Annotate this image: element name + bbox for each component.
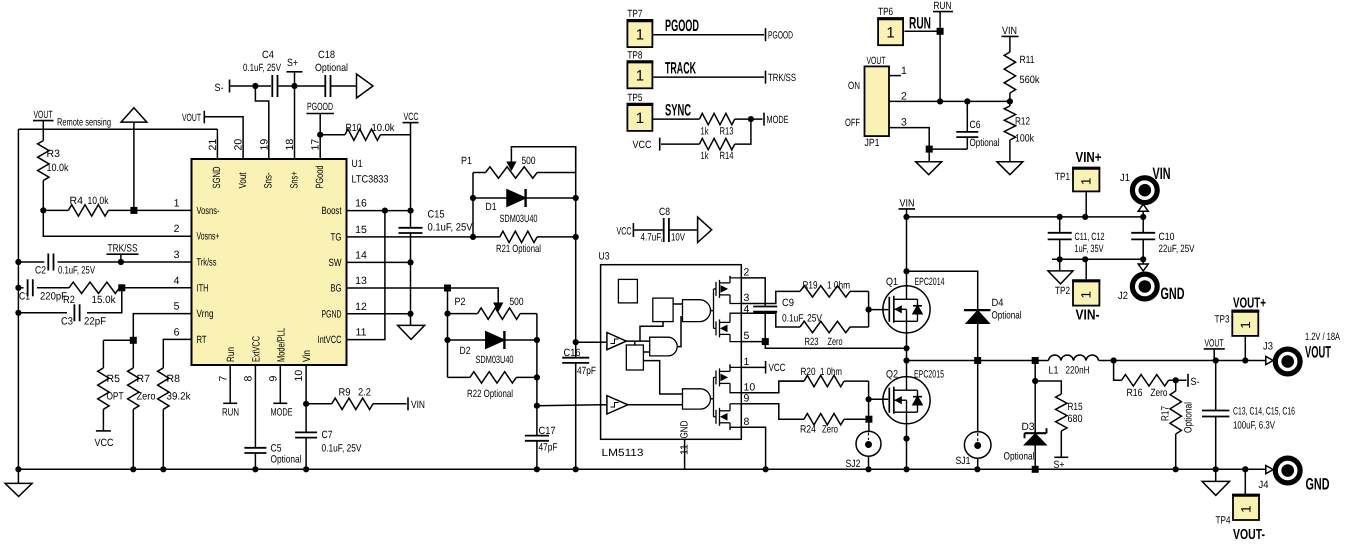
svg-text:VCC: VCC xyxy=(769,362,786,374)
node RUN junction square xyxy=(937,28,944,35)
capacitor C11 C12 xyxy=(1048,217,1105,259)
U3 pin 10 LO route xyxy=(741,381,804,393)
svg-text:1: 1 xyxy=(886,24,894,41)
svg-text:500: 500 xyxy=(522,155,536,167)
node C11 bottom junction xyxy=(1057,256,1063,262)
U3 pin 2 HB route xyxy=(741,267,765,308)
ground bottom-left xyxy=(5,469,32,496)
node Q1 source junction xyxy=(903,345,909,351)
node C3 rail junction xyxy=(15,310,21,316)
svg-text:R10: R10 xyxy=(346,122,362,134)
svg-text:VOUT: VOUT xyxy=(182,112,201,124)
svg-text:SJ2: SJ2 xyxy=(846,458,861,470)
node ground junction U3 VSS xyxy=(763,466,769,472)
svg-text:OFF: OFF xyxy=(845,117,860,129)
svg-text:11: 11 xyxy=(678,444,690,455)
svg-text:SW: SW xyxy=(329,257,342,269)
node Vosns- junction square xyxy=(130,207,137,214)
sense antenna triangle xyxy=(121,108,147,211)
jumper JP1 body xyxy=(845,55,889,149)
wire P1 right lead xyxy=(547,172,576,174)
node R15 branch junction xyxy=(1032,378,1038,384)
net flag S+ at R15 xyxy=(1054,457,1069,471)
svg-text:Boost: Boost xyxy=(322,205,342,217)
svg-text:1k: 1k xyxy=(701,126,710,138)
svg-text:D3: D3 xyxy=(1022,421,1035,433)
node R22 right junction xyxy=(534,374,540,380)
svg-text:SDM03U40: SDM03U40 xyxy=(500,213,538,225)
text VIN+ label xyxy=(1076,150,1102,166)
svg-text:GND: GND xyxy=(678,420,690,438)
net flag MODE at R13 xyxy=(764,113,789,126)
node P2 left junction xyxy=(444,311,450,317)
net flag VCC boost rail xyxy=(403,111,419,211)
svg-text:P1: P1 xyxy=(461,155,472,167)
JP1 pin 3 xyxy=(889,117,967,150)
U3 HI schmitt buffer xyxy=(607,333,626,350)
wire D1 network right rail xyxy=(575,147,577,343)
wire IntVCC rail xyxy=(347,211,385,340)
resistor R13 xyxy=(699,113,762,137)
solder jumper SJ2 xyxy=(846,419,882,470)
svg-text:3: 3 xyxy=(174,249,180,261)
text PGOOD big xyxy=(665,17,699,35)
svg-text:VCC: VCC xyxy=(95,437,114,449)
svg-text:1: 1 xyxy=(901,65,907,77)
diode D4 xyxy=(964,297,1022,361)
svg-text:22pF: 22pF xyxy=(84,316,106,328)
svg-text:S-: S- xyxy=(215,82,224,94)
node D3 top square xyxy=(1032,357,1039,364)
wire pin4 row xyxy=(18,287,121,289)
wire pin5 Vrng route xyxy=(133,314,191,341)
svg-text:Vosns-: Vosns- xyxy=(197,205,220,217)
net flag VCC at U3 xyxy=(766,361,786,374)
svg-text:C18: C18 xyxy=(318,49,335,61)
capacitor C9 xyxy=(753,297,822,342)
capacitor C7 xyxy=(295,404,361,470)
svg-text:R8: R8 xyxy=(167,373,181,385)
node C11 top junction xyxy=(1057,214,1063,220)
svg-text:1uF, 35V: 1uF, 35V xyxy=(1075,243,1104,255)
node D2 left junction xyxy=(444,337,450,343)
U3 pin 1 VDD xyxy=(741,356,765,368)
wire PGND row xyxy=(347,313,411,315)
svg-text:TRACK: TRACK xyxy=(665,60,696,78)
node TP3 junction xyxy=(1242,357,1248,363)
node Cout top junction xyxy=(1213,357,1219,363)
svg-text:Vout: Vout xyxy=(237,172,249,188)
capacitor C17 xyxy=(525,406,558,470)
U3 AND gate low side xyxy=(683,389,711,409)
net flag VCC at R5 xyxy=(95,431,114,449)
node Q2 source junction xyxy=(903,436,909,442)
resistor R21 xyxy=(473,231,576,255)
wire SW row xyxy=(347,261,411,263)
capacitor C10 xyxy=(1131,217,1194,259)
svg-text:R2: R2 xyxy=(63,294,75,306)
svg-text:R4: R4 xyxy=(70,195,84,207)
svg-text:D2: D2 xyxy=(460,345,471,357)
testpoint TP2 xyxy=(1055,259,1100,305)
svg-text:TP2: TP2 xyxy=(1055,285,1070,297)
node C1 rail junction xyxy=(15,285,21,291)
net flag TRK/SS at TP8 xyxy=(766,71,797,84)
svg-text:VOUT: VOUT xyxy=(867,55,886,67)
svg-text:J3: J3 xyxy=(1263,341,1273,353)
wire Q2 gate lead xyxy=(869,398,889,400)
svg-text:EPC2014: EPC2014 xyxy=(915,276,945,288)
node ground junction Q2 xyxy=(903,466,909,472)
svg-text:TP5: TP5 xyxy=(627,92,642,104)
node ground junction SJ1 xyxy=(974,466,980,472)
wire RUN to JP1 row xyxy=(939,31,941,101)
resistor R7 xyxy=(128,340,156,469)
svg-text:PGOOD: PGOOD xyxy=(768,30,793,42)
svg-text:PGOOD: PGOOD xyxy=(665,17,699,35)
svg-text:9: 9 xyxy=(267,376,279,382)
svg-text:0.1uF, 25V: 0.1uF, 25V xyxy=(58,265,95,277)
svg-text:R19: R19 xyxy=(803,280,818,292)
svg-text:D4: D4 xyxy=(992,297,1004,309)
wire LI input row xyxy=(537,404,601,407)
net flag S- xyxy=(215,80,272,95)
svg-text:VOUT: VOUT xyxy=(1205,338,1224,350)
svg-text:VIN: VIN xyxy=(1153,165,1171,183)
net flag S+ xyxy=(287,57,303,86)
wire D3 rail xyxy=(1034,361,1036,434)
resistor R19 xyxy=(800,280,869,298)
wire pin6 RT route xyxy=(163,339,191,368)
svg-text:LTC3833: LTC3833 xyxy=(352,174,389,186)
node TP2 junction xyxy=(1082,256,1088,262)
node C6 junction xyxy=(964,98,970,104)
wire BG row xyxy=(347,287,448,289)
U3 LI schmitt buffer xyxy=(607,396,628,414)
solder jumper SJ1 xyxy=(956,361,992,470)
wire C18 to plane symbol xyxy=(331,85,357,87)
wire C8 to plane xyxy=(669,229,698,231)
node switch junction xyxy=(903,357,909,363)
wire Vin pin stub xyxy=(305,365,307,404)
potentiometer P2 xyxy=(448,296,537,319)
U3 pin 9 LOL route xyxy=(741,393,804,420)
svg-text:1 0hm: 1 0hm xyxy=(820,366,842,378)
svg-text:22uF, 25V: 22uF, 25V xyxy=(1159,243,1195,255)
U3 low-side driver FETs xyxy=(714,364,742,429)
testpoint TP3 xyxy=(1215,311,1260,360)
svg-text:TP8: TP8 xyxy=(627,49,642,61)
node ground junction SJ2 xyxy=(865,466,871,472)
U3 UVLO block xyxy=(618,279,637,303)
svg-text:R12: R12 xyxy=(1015,116,1030,128)
svg-text:2: 2 xyxy=(901,91,907,103)
svg-text:R24: R24 xyxy=(800,424,816,436)
net flag VIN rail xyxy=(899,198,916,286)
wire HI input row xyxy=(576,341,601,343)
capacitor C3 xyxy=(61,304,106,327)
wire ITH to pin xyxy=(122,287,192,289)
node ground junction Cout xyxy=(1213,466,1219,472)
wire pin3 row xyxy=(18,261,191,263)
ground below PGND xyxy=(398,325,425,339)
svg-text:PGood: PGood xyxy=(314,165,326,188)
wire Vosns+ route xyxy=(43,210,191,236)
svg-text:RUN: RUN xyxy=(909,15,931,33)
text VOUT- label xyxy=(1233,527,1265,543)
svg-text:Sns-: Sns- xyxy=(263,172,275,188)
svg-text:ON: ON xyxy=(848,80,860,92)
resistor R24 xyxy=(779,414,869,436)
svg-text:0.1uF, 25V: 0.1uF, 25V xyxy=(243,62,281,74)
svg-text:R3: R3 xyxy=(47,148,61,160)
svg-text:1: 1 xyxy=(1239,505,1254,513)
wire TG row xyxy=(347,236,474,238)
wire VIN to input caps xyxy=(907,216,1144,218)
svg-text:1: 1 xyxy=(636,110,644,127)
svg-text:R23: R23 xyxy=(805,336,819,348)
svg-text:Zero: Zero xyxy=(828,336,843,348)
svg-text:C9: C9 xyxy=(782,297,794,309)
wire gnd to J4 xyxy=(1245,468,1266,470)
resistor R11 xyxy=(1004,52,1040,101)
svg-text:4.7uF,: 4.7uF, xyxy=(641,232,663,244)
gate-driver U3 LM5113 body xyxy=(599,251,742,460)
capacitor C18 xyxy=(315,49,348,97)
node J1 junction xyxy=(1140,214,1146,220)
U3 pin 8 VSS route xyxy=(741,416,765,469)
svg-text:C17: C17 xyxy=(539,425,556,437)
svg-text:10.0k: 10.0k xyxy=(47,162,70,174)
svg-text:R11: R11 xyxy=(1020,54,1035,66)
node TP1 junction xyxy=(1082,214,1088,220)
node R3-R4 junction xyxy=(40,207,46,213)
wire Q1 gate rail xyxy=(868,291,870,327)
svg-text:EPC2015: EPC2015 xyxy=(914,369,944,381)
wire Q2 source xyxy=(906,424,908,470)
svg-text:47pF: 47pF xyxy=(577,365,596,377)
wire C3 branch xyxy=(18,288,121,313)
svg-text:1.2V / 18A: 1.2V / 18A xyxy=(1305,331,1340,343)
svg-text:VCC: VCC xyxy=(617,226,632,238)
svg-text:10.0k: 10.0k xyxy=(372,122,396,134)
svg-text:U3: U3 xyxy=(599,251,610,263)
svg-text:500: 500 xyxy=(510,296,524,308)
U3 AND gate mid xyxy=(650,337,678,356)
wire P2 left rail xyxy=(447,288,449,377)
svg-text:Vrng: Vrng xyxy=(197,308,214,320)
svg-text:C13, C14, C15, C16: C13, C14, C15, C16 xyxy=(1233,406,1295,418)
svg-text:7: 7 xyxy=(217,376,229,382)
U1 top pin labels 21-17 xyxy=(207,139,326,189)
svg-text:15.0k: 15.0k xyxy=(92,294,117,306)
wire Q1 source to switch xyxy=(906,333,908,361)
svg-text:C15: C15 xyxy=(428,209,445,221)
svg-text:Run: Run xyxy=(225,347,237,362)
svg-text:4: 4 xyxy=(744,303,750,315)
node R21 right junction xyxy=(573,234,579,240)
node ground junction C16 xyxy=(573,466,579,472)
wire top-left VOUT rail xyxy=(18,128,217,130)
node Q1 gate junction xyxy=(866,307,872,313)
U3 GND pin 11 xyxy=(678,420,690,469)
svg-text:10: 10 xyxy=(293,370,305,382)
connector J1 VIN xyxy=(1120,165,1171,217)
wire Q1 gate lead xyxy=(869,309,889,311)
node Boost-C15 junction xyxy=(407,208,413,214)
U3 internal wires xyxy=(601,304,714,405)
node ground junction C17 xyxy=(534,466,540,472)
svg-text:1: 1 xyxy=(636,26,644,43)
svg-text:9: 9 xyxy=(744,393,750,405)
resistor R2 xyxy=(63,282,120,306)
svg-text:ITH: ITH xyxy=(197,282,209,294)
svg-text:R14: R14 xyxy=(720,150,734,162)
svg-text:TRK/SS: TRK/SS xyxy=(108,243,138,255)
net flag MODE xyxy=(271,365,293,419)
node D1 right junction xyxy=(573,195,579,201)
net flag TRK/SS xyxy=(107,243,139,263)
svg-text:J2: J2 xyxy=(1118,290,1128,302)
svg-text:GND: GND xyxy=(1161,285,1185,303)
svg-text:S+: S+ xyxy=(1054,459,1065,471)
net flag VCC at C8 xyxy=(617,223,664,237)
node ground junction R7 xyxy=(130,466,136,472)
svg-text:OPT: OPT xyxy=(107,391,124,403)
svg-text:1: 1 xyxy=(1079,178,1094,186)
svg-text:8: 8 xyxy=(744,416,750,428)
svg-text:R22 Optional: R22 Optional xyxy=(467,388,513,400)
svg-text:S-: S- xyxy=(1191,376,1200,388)
svg-text:1: 1 xyxy=(1079,291,1094,299)
ground below C11 xyxy=(1048,259,1073,284)
svg-text:RUN: RUN xyxy=(934,0,952,12)
svg-text:RT: RT xyxy=(197,334,207,346)
svg-text:PGND: PGND xyxy=(322,308,342,320)
svg-text:TRK/SS: TRK/SS xyxy=(768,72,796,84)
node R11-R12 junction xyxy=(1007,98,1013,104)
node LI input junction xyxy=(534,403,540,409)
wire switch node row xyxy=(907,360,1049,362)
svg-text:Optional: Optional xyxy=(970,137,1000,149)
svg-text:R13: R13 xyxy=(720,126,734,138)
svg-text:C7: C7 xyxy=(322,429,333,441)
svg-text:Zero: Zero xyxy=(137,391,156,403)
net flag VOUT label xyxy=(1204,338,1225,361)
node ground junction R8 xyxy=(160,466,166,472)
text VOUT+ label xyxy=(1233,296,1266,312)
U1 right pin labels 16-11 xyxy=(318,198,367,347)
svg-text:12: 12 xyxy=(355,301,367,313)
svg-text:4: 4 xyxy=(174,275,180,287)
svg-text:P2: P2 xyxy=(455,296,466,308)
svg-text:14: 14 xyxy=(355,249,367,261)
svg-text:SGND: SGND xyxy=(211,166,223,188)
node D1 left junction xyxy=(470,195,476,201)
svg-text:Optional: Optional xyxy=(992,310,1022,322)
svg-text:11: 11 xyxy=(356,327,367,339)
node TP4 junction xyxy=(1242,466,1248,472)
diode D2 SDM03U40 xyxy=(448,331,537,366)
node ITH junction square xyxy=(118,284,125,291)
svg-text:C8: C8 xyxy=(659,206,670,218)
U3 pin 3 HO route xyxy=(741,291,800,304)
wire Boost row xyxy=(347,210,411,212)
svg-text:1: 1 xyxy=(636,68,644,85)
net flag PGOOD xyxy=(307,101,335,159)
svg-text:13: 13 xyxy=(355,275,367,287)
text RUN big xyxy=(909,15,931,33)
svg-text:0.1uF, 25V: 0.1uF, 25V xyxy=(428,222,473,234)
U3 pin 4 HOL route xyxy=(741,303,800,327)
U1 reference label xyxy=(352,158,389,186)
svg-text:TP6: TP6 xyxy=(878,6,893,18)
U1 bottom pin labels 7-10 xyxy=(217,328,313,382)
net flag VOUT (remote sense) xyxy=(33,109,54,129)
connector J3 VOUT xyxy=(1263,331,1340,374)
svg-text:Zero: Zero xyxy=(822,424,838,436)
svg-text:IntVCC: IntVCC xyxy=(318,334,342,346)
net flag VOUT at pin20 xyxy=(182,111,243,159)
node D3 bottom square xyxy=(1032,466,1039,473)
svg-text:PGOOD: PGOOD xyxy=(307,101,333,113)
wire Q2 drain xyxy=(906,361,908,377)
resistor R3 xyxy=(38,129,70,210)
node Boost-IntVCC junction xyxy=(382,208,388,214)
node VIN-D4 junction xyxy=(903,268,909,274)
wire VIN to D4 xyxy=(907,271,978,310)
testpoint TP8 xyxy=(627,49,765,88)
testpoint TP1 xyxy=(1055,168,1100,217)
capacitor C4 xyxy=(243,49,281,97)
wire R5 top link xyxy=(103,339,133,341)
ground below Cout xyxy=(1202,469,1230,495)
svg-text:2: 2 xyxy=(174,223,180,235)
plane triangle right xyxy=(357,74,374,98)
capacitor C15 xyxy=(399,209,473,326)
svg-text:MODE: MODE xyxy=(271,407,293,419)
capacitor C8 xyxy=(641,206,686,244)
svg-text:Vin: Vin xyxy=(301,350,313,362)
node pin3 rail junction xyxy=(15,259,21,265)
wire pin21 stub xyxy=(216,129,218,159)
svg-text:JP1: JP1 xyxy=(865,137,880,149)
resistor R5 xyxy=(98,340,124,431)
net flag VCC at R14 xyxy=(633,138,660,151)
net flag S- at R16 xyxy=(1188,374,1200,388)
net flag VIN at R9 xyxy=(408,397,425,411)
node Q2 gate junction xyxy=(866,396,872,402)
capacitor C5 xyxy=(244,365,301,469)
resistor R17 xyxy=(1160,380,1195,469)
svg-text:Optional: Optional xyxy=(315,62,348,74)
op-amp U1 LTC3833 controller body xyxy=(192,159,347,365)
svg-text:SYNC: SYNC xyxy=(665,102,691,120)
ground below JP1 xyxy=(916,149,942,175)
svg-text:J1: J1 xyxy=(1120,172,1130,184)
node S+ junction xyxy=(291,83,297,89)
svg-text:R9: R9 xyxy=(339,387,351,399)
svg-text:VCC: VCC xyxy=(404,111,419,123)
U3 level-shift block xyxy=(626,345,643,370)
svg-text:R20: R20 xyxy=(801,366,816,378)
resistor R16 xyxy=(1114,361,1187,400)
wire Sns+ stub xyxy=(294,86,296,159)
svg-text:U1: U1 xyxy=(352,158,363,170)
U1 left pin labels 1-6 xyxy=(174,197,220,346)
node TRK/SS junction xyxy=(118,259,124,265)
svg-text:100uF, 6.3V: 100uF, 6.3V xyxy=(1233,420,1275,432)
